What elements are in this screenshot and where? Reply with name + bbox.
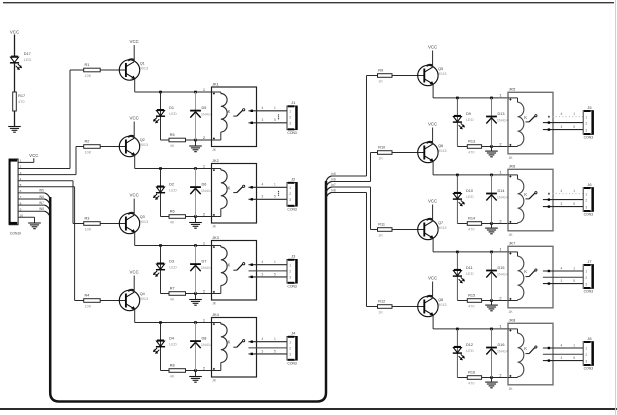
svg-text:R16: R16 — [468, 371, 475, 375]
bus entry In5 right — [326, 176, 332, 182]
wire IN4 pin 5 — [18, 186, 75, 188]
relay JK6 — [508, 164, 553, 237]
svg-text:D3: D3 — [169, 260, 174, 264]
svg-text:K: K — [524, 192, 527, 197]
contact wire JK6 faint row — [552, 193, 583, 195]
relay pole contact JK4 — [233, 340, 244, 348]
contact wire JK5 row 2 — [543, 122, 583, 124]
svg-text:Q4: Q4 — [140, 292, 145, 296]
junction node LED branch JK-stage R4 — [456, 328, 459, 331]
relay JK5 — [508, 87, 553, 160]
wire diode branch L3 — [195, 246, 197, 294]
wire LED to resistor R2 — [457, 223, 467, 225]
svg-text:1: 1 — [585, 115, 587, 119]
svg-text:CON3: CON3 — [287, 131, 297, 135]
junction node LED branch JK-stage R3 — [456, 251, 459, 254]
svg-text:1: 1 — [499, 170, 501, 175]
transistor Q8 — [418, 296, 447, 317]
ground stub R4 — [491, 378, 493, 382]
svg-text:4K: 4K — [170, 221, 175, 225]
svg-text:CON3: CON3 — [584, 290, 594, 294]
contact wire JK4 row 3 — [249, 353, 288, 355]
contact wire JK2 row 3 — [249, 198, 288, 200]
svg-text:R14: R14 — [468, 217, 475, 221]
wire resistor to diode junction L4 — [186, 370, 196, 372]
flyback diode D16 — [486, 348, 497, 355]
svg-text:2: 2 — [203, 289, 205, 294]
contact wire JK8 row 1 — [543, 347, 583, 349]
svg-text:1: 1 — [499, 247, 501, 252]
svg-text:J7: J7 — [587, 259, 591, 264]
wire LED branch L1 — [160, 92, 162, 140]
svg-text:2: 2 — [289, 347, 291, 351]
LED D12 — [453, 347, 465, 360]
connector P1 CON10 — [9, 159, 22, 236]
flyback diode D15 — [486, 271, 497, 278]
wire pin2 to relay R4 — [492, 377, 509, 379]
svg-text:1: 1 — [289, 186, 291, 190]
LED D17 — [10, 56, 22, 69]
flyback diode D13 — [486, 117, 497, 124]
svg-text:D2: D2 — [169, 183, 174, 187]
relay coil JK1 — [212, 92, 231, 140]
svg-text:2: 2 — [499, 373, 501, 378]
relay coil JK7 — [508, 252, 527, 301]
wire IN3 pin 4 — [18, 180, 73, 182]
svg-text:JK2: JK2 — [212, 158, 219, 163]
wire Q2 collector to VCC — [133, 122, 135, 139]
svg-text:R3: R3 — [85, 217, 90, 221]
svg-text:R9: R9 — [378, 69, 383, 73]
ground R1 — [485, 151, 498, 157]
wire resistor to diode junction R2 — [482, 223, 492, 225]
svg-text:VCC: VCC — [428, 122, 437, 127]
svg-text:In8: In8 — [331, 189, 336, 193]
svg-text:R5: R5 — [170, 133, 175, 137]
svg-text:1: 1 — [274, 337, 276, 341]
junction node ground L3 — [194, 292, 197, 295]
wire Q1 emitter to relay JK1 — [134, 79, 136, 92]
svg-text:470: 470 — [468, 228, 474, 232]
svg-text:2: 2 — [585, 276, 587, 280]
wire pin2 to relay L4 — [196, 370, 212, 372]
VCC Q6 — [428, 122, 437, 127]
relay JK3 — [212, 235, 257, 306]
svg-text:4K: 4K — [170, 375, 175, 379]
svg-text:5: 5 — [274, 272, 276, 276]
contact wire JK8 row 3 — [543, 360, 583, 362]
svg-text:470: 470 — [468, 382, 474, 386]
svg-text:1: 1 — [274, 183, 276, 187]
svg-text:JK4: JK4 — [212, 312, 220, 317]
wire resistor to diode junction R1 — [482, 146, 492, 148]
svg-text:1: 1 — [289, 340, 291, 344]
relay pole contact JK7 — [526, 269, 538, 277]
svg-text:D1: D1 — [169, 106, 174, 110]
svg-text:3: 3 — [585, 282, 587, 286]
svg-text:4: 4 — [561, 266, 563, 270]
svg-text:VCC: VCC — [130, 116, 139, 121]
svg-text:10K: 10K — [85, 74, 92, 78]
junction node LED branch JK-stage L2 — [159, 167, 162, 170]
svg-text:1: 1 — [585, 347, 587, 351]
svg-text:VCC: VCC — [428, 199, 437, 204]
contact pin number labels JK3 — [262, 260, 277, 276]
VCC Q5 — [428, 45, 437, 50]
bus entry In8 right — [326, 193, 332, 199]
svg-text:D15: D15 — [498, 266, 505, 270]
connector J3 — [287, 254, 298, 289]
svg-text:VCC: VCC — [29, 153, 38, 158]
wire diode branch L4 — [195, 323, 197, 371]
page bottom border — [0, 408, 617, 410]
wire In8 to R12 — [332, 192, 367, 194]
svg-text:1: 1 — [573, 112, 575, 116]
svg-text:Q1: Q1 — [140, 62, 145, 66]
pin end marks relay JK2 — [213, 169, 215, 216]
wire LED branch R4 — [456, 329, 458, 378]
wire pin2 to relay L2 — [196, 216, 212, 218]
wire R2 to Q2 base — [100, 146, 126, 148]
svg-text:J5: J5 — [587, 105, 591, 110]
junction node diode branch L2 — [194, 167, 197, 170]
pin end marks relay JK5 — [509, 99, 511, 146]
svg-text:3: 3 — [289, 122, 291, 126]
contact wire JK8 row 2 — [543, 353, 583, 355]
svg-text:J8: J8 — [587, 336, 591, 341]
junction node LED branch JK-stage L1 — [159, 91, 162, 94]
svg-text:D6: D6 — [202, 183, 207, 187]
wire LED branch L4 — [160, 323, 162, 371]
wire LED to resistor L3 — [161, 293, 170, 295]
svg-text:4K: 4K — [170, 298, 175, 302]
contact wire JK3 row 1 — [249, 264, 288, 266]
transistor Q7 — [418, 219, 447, 240]
wire Q3 collector to VCC — [133, 199, 135, 216]
contact pin number labels JK2 — [262, 183, 277, 199]
svg-text:2: 2 — [289, 270, 291, 274]
svg-text:1: 1 — [499, 324, 501, 329]
contact pin number labels JK8 — [561, 343, 576, 360]
svg-text:2: 2 — [499, 142, 501, 147]
svg-text:9013: 9013 — [140, 66, 148, 70]
svg-text:LED: LED — [466, 195, 474, 199]
svg-text:1: 1 — [585, 192, 587, 196]
svg-text:D13: D13 — [498, 112, 505, 116]
contact wire JK1 faint row — [278, 114, 279, 115]
wire diode branch R3 — [491, 252, 493, 301]
svg-text:IN7: IN7 — [39, 201, 44, 205]
flyback diode D8 — [190, 341, 201, 348]
svg-text:K: K — [524, 115, 527, 120]
svg-text:R11: R11 — [378, 223, 385, 227]
wire Q7 emitter to relay JK7 — [432, 238, 434, 252]
svg-text:5: 5 — [573, 202, 575, 206]
svg-text:2: 2 — [203, 212, 205, 217]
resistor R4 — [84, 294, 101, 309]
svg-text:JK7: JK7 — [509, 241, 516, 246]
ground L2 — [189, 223, 202, 229]
resistor R3 — [84, 217, 101, 232]
svg-text:4: 4 — [262, 106, 264, 110]
svg-text:R6: R6 — [170, 210, 175, 214]
junction node LED branch JK-stage R2 — [456, 174, 459, 177]
pin end marks relay JK8 — [509, 330, 511, 377]
wire LED branch R3 — [456, 252, 458, 301]
wire diode branch R2 — [491, 175, 493, 224]
svg-text:5: 5 — [573, 125, 575, 129]
svg-text:CON3: CON3 — [584, 367, 594, 371]
svg-text:1K: 1K — [378, 311, 383, 315]
contact wire JK2 row 1 — [249, 186, 288, 188]
svg-text:R2: R2 — [85, 140, 90, 144]
connector J8 — [583, 336, 594, 371]
relay JK2 — [212, 158, 257, 229]
bus entry In6 right — [326, 182, 332, 188]
svg-text:In6: In6 — [331, 178, 336, 182]
svg-text:JK3: JK3 — [212, 235, 219, 240]
wire pin2 to relay R3 — [492, 300, 509, 302]
VCC Q4 — [130, 270, 139, 275]
svg-text:1: 1 — [203, 164, 205, 169]
wire R12 to Q8 base — [392, 306, 424, 308]
svg-text:LED: LED — [466, 272, 474, 276]
svg-text:D5: D5 — [202, 106, 207, 110]
power VCC — [10, 30, 19, 35]
wire LED to resistor R1 — [457, 146, 467, 148]
pin end marks relay JK4 — [213, 323, 215, 370]
svg-text:1: 1 — [573, 266, 575, 270]
wire pin2 to relay L1 — [196, 139, 212, 141]
svg-text:LED: LED — [169, 266, 177, 270]
junction node diode branch R2 — [490, 174, 493, 177]
contact wire JK1 row 3 — [249, 122, 288, 124]
VCC Q7 — [428, 199, 437, 204]
svg-text:1: 1 — [203, 318, 205, 323]
svg-text:9013: 9013 — [438, 72, 446, 76]
svg-text:3: 3 — [289, 276, 291, 280]
svg-text:5: 5 — [274, 349, 276, 353]
svg-text:5: 5 — [274, 118, 276, 122]
svg-text:K: K — [228, 340, 231, 345]
resistor R11 — [378, 223, 393, 238]
connector J7 — [583, 259, 594, 294]
svg-text:2: 2 — [289, 116, 291, 120]
svg-text:3: 3 — [262, 272, 264, 276]
resistor R9 — [378, 69, 393, 84]
svg-text:4: 4 — [561, 189, 563, 193]
wire R11 to Q7 base — [392, 229, 424, 231]
junction node ground R2 — [490, 222, 493, 225]
svg-text:9013: 9013 — [140, 143, 148, 147]
connector J1 — [287, 100, 298, 135]
svg-text:9013: 9013 — [140, 220, 148, 224]
wire Q8 emitter to relay JK8 — [432, 315, 434, 329]
svg-text:K: K — [228, 186, 231, 191]
svg-text:JK8: JK8 — [509, 318, 516, 323]
wire Q5 collector to VCC — [432, 51, 434, 68]
svg-text:1: 1 — [499, 93, 501, 98]
svg-text:2: 2 — [499, 219, 501, 224]
wire LED branch R2 — [456, 175, 458, 224]
svg-text:IN5: IN5 — [39, 189, 44, 193]
resistor R12 — [378, 300, 393, 315]
svg-text:4K: 4K — [170, 144, 175, 148]
bus entry In7 right — [326, 187, 332, 193]
junction node diode branch R4 — [490, 328, 493, 331]
svg-text:R13: R13 — [468, 140, 475, 144]
wire diode branch L1 — [195, 92, 197, 140]
ground L4 — [189, 377, 202, 383]
svg-text:3: 3 — [585, 359, 587, 363]
wire LED branch R1 — [456, 98, 458, 147]
svg-text:10K: 10K — [85, 305, 92, 309]
contact wire JK6 row 3 — [543, 206, 583, 208]
contact wire JK7 row 1 — [543, 270, 583, 272]
svg-text:1: 1 — [585, 270, 587, 274]
contact pin number labels JK7 — [561, 266, 576, 283]
relay pole contact JK6 — [526, 192, 538, 199]
svg-text:Q8: Q8 — [438, 298, 443, 302]
svg-text:CON3: CON3 — [584, 136, 594, 140]
page right border — [615, 0, 617, 415]
contact wire JK2 faint row — [278, 191, 279, 192]
svg-text:D4: D4 — [169, 337, 174, 341]
relay pole contact JK1 — [233, 109, 244, 116]
svg-text:CON10: CON10 — [10, 232, 21, 236]
svg-text:D8: D8 — [202, 337, 207, 341]
wire R1 to Q1 base — [100, 69, 126, 71]
svg-text:Q2: Q2 — [140, 138, 145, 142]
wire In6 to R10 — [332, 181, 371, 183]
contact pin number labels JK4 — [262, 337, 277, 353]
svg-text:D16: D16 — [498, 343, 505, 347]
transistor Q4 — [119, 290, 148, 311]
contact wire JK3 row 3 — [249, 276, 288, 278]
relay pole contact JK8 — [526, 346, 538, 354]
svg-text:In7: In7 — [331, 183, 336, 187]
ground stub L4 — [195, 371, 197, 377]
LED D11 — [453, 270, 465, 283]
svg-text:2: 2 — [203, 135, 205, 140]
wire resistor to diode junction R4 — [482, 377, 492, 379]
ground R4 — [485, 382, 498, 388]
wire diode branch R1 — [491, 98, 493, 147]
junction node diode branch L3 — [194, 244, 197, 247]
junction node ground R3 — [490, 299, 493, 302]
wire Q4 emitter to relay JK4 — [134, 309, 136, 322]
pin end marks relay JK1 — [213, 93, 215, 140]
svg-text:1K: 1K — [378, 157, 383, 161]
resistor R2 — [84, 140, 101, 155]
wire LED to resistor L2 — [161, 216, 170, 218]
svg-text:3: 3 — [561, 202, 563, 206]
contact pin number labels JK1 — [262, 106, 277, 122]
svg-text:Q6: Q6 — [438, 144, 443, 148]
wire Q6 emitter to relay JK6 — [432, 161, 434, 175]
relay JK1 — [212, 81, 257, 152]
svg-text:J2: J2 — [291, 177, 295, 182]
svg-text:R10: R10 — [378, 146, 385, 150]
svg-text:R17: R17 — [18, 94, 25, 98]
contact wire JK5 row 3 — [543, 129, 583, 131]
svg-text:10K: 10K — [85, 151, 92, 155]
svg-text:Q7: Q7 — [438, 221, 443, 225]
svg-text:1: 1 — [573, 343, 575, 347]
pin 10 wire to ground — [18, 216, 34, 218]
flyback diode D5 — [190, 111, 201, 118]
ground stub R3 — [491, 301, 493, 305]
transistor Q1 — [119, 59, 148, 80]
svg-text:5: 5 — [573, 356, 575, 360]
svg-text:4: 4 — [262, 337, 264, 341]
svg-text:3: 3 — [289, 198, 291, 202]
svg-text:2: 2 — [289, 192, 291, 196]
svg-text:9013: 9013 — [438, 226, 446, 230]
wire Q6 collector to VCC — [432, 128, 434, 145]
wire resistor to diode junction L2 — [186, 216, 196, 218]
relay pole contact JK5 — [526, 115, 538, 122]
svg-text:CON3: CON3 — [287, 285, 297, 289]
VCC Q3 — [130, 193, 139, 198]
pin end marks relay JK3 — [213, 246, 215, 293]
wire R10 to Q6 base — [392, 152, 424, 154]
svg-text:JK1: JK1 — [212, 81, 219, 86]
svg-text:3: 3 — [585, 205, 587, 209]
svg-text:CON3: CON3 — [287, 208, 297, 212]
wire IN5 pin 7 bus entry — [18, 192, 44, 194]
pin 1 wire to VCC — [18, 161, 34, 163]
junction node ground R4 — [490, 376, 493, 379]
svg-text:VCC: VCC — [428, 45, 437, 50]
wire Q1 collector to VCC — [133, 45, 135, 62]
relay pole contact JK2 — [233, 185, 244, 192]
flyback diode D14 — [486, 194, 497, 201]
wire IN2 pin 3 — [18, 174, 76, 176]
svg-text:VCC: VCC — [428, 276, 437, 281]
svg-text:JK5: JK5 — [509, 87, 516, 92]
svg-text:R4: R4 — [85, 294, 90, 298]
junction node LED branch JK-stage L3 — [159, 244, 162, 247]
junction node LED branch JK-stage L4 — [159, 321, 162, 324]
svg-text:D7: D7 — [202, 260, 207, 264]
wire resistor to diode junction L3 — [186, 293, 196, 295]
VCC Q1 — [130, 39, 139, 44]
flyback diode D6 — [190, 187, 201, 194]
contact wire JK6 row 2 — [543, 199, 583, 201]
wire Q8 collector to VCC — [432, 282, 434, 299]
contact wire JK3 row 2 — [249, 270, 288, 272]
resistor R14 — [467, 217, 481, 232]
relay coil JK3 — [212, 246, 231, 294]
junction node ground R1 — [490, 145, 493, 148]
svg-text:9013: 9013 — [140, 297, 148, 301]
junction node diode branch R1 — [490, 97, 493, 100]
junction node ground L2 — [194, 215, 197, 218]
svg-text:D17: D17 — [24, 52, 31, 56]
contact pin number labels JK6 — [561, 189, 576, 206]
svg-text:3: 3 — [289, 353, 291, 357]
LED D9 — [453, 116, 465, 129]
contact wire JK1 row 1 — [249, 110, 288, 112]
svg-text:470: 470 — [468, 151, 474, 155]
svg-text:J1: J1 — [291, 100, 295, 105]
svg-text:D9: D9 — [466, 112, 471, 116]
svg-text:VCC: VCC — [130, 193, 139, 198]
svg-text:VCC: VCC — [130, 39, 139, 44]
ground stub R1 — [491, 147, 493, 151]
relay JK7 — [508, 241, 553, 314]
